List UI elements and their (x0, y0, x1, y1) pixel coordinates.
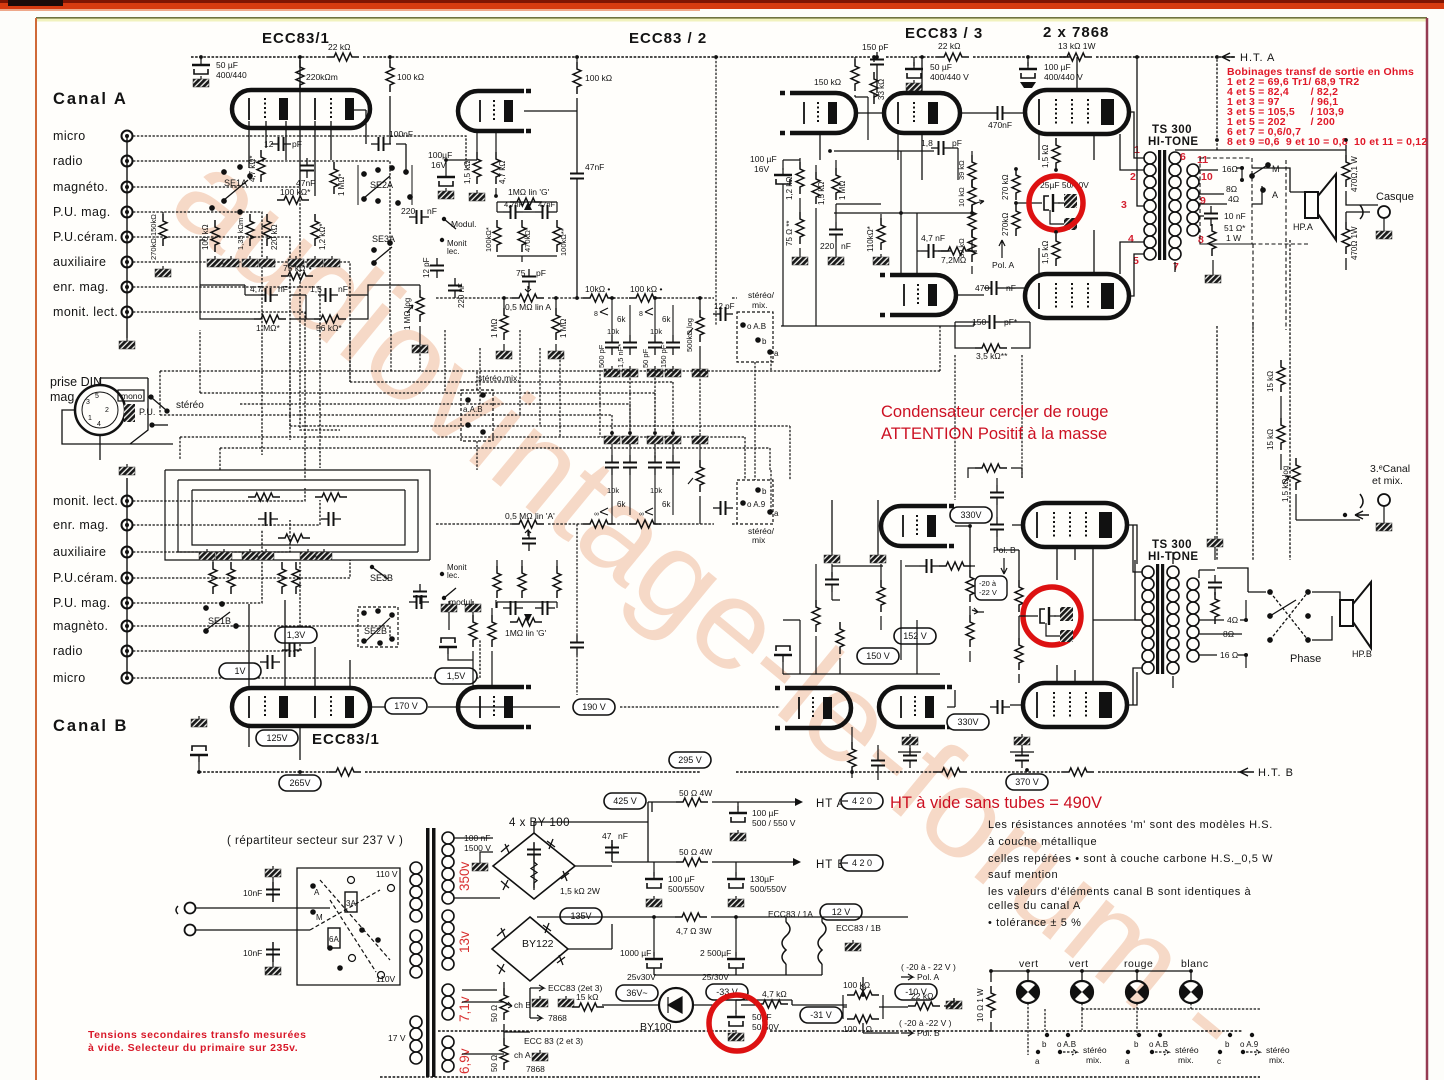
svg-text:100 µF: 100 µF (1044, 62, 1071, 72)
svg-text:350v: 350v (457, 861, 472, 891)
cap 47nF (300, 158, 314, 178)
svg-text:50 µF: 50 µF (930, 62, 952, 72)
wires phase to speaker (1217, 568, 1340, 640)
svg-text:1,35 kΩm: 1,35 kΩm (236, 218, 245, 250)
oval 330V top (950, 507, 992, 523)
resistor B fb2 (315, 493, 347, 501)
svg-text:12 V: 12 V (832, 907, 851, 917)
svg-text:1 MΩ*: 1 MΩ* (256, 323, 281, 333)
oval 36V (616, 985, 658, 1001)
svg-text:6k: 6k (617, 315, 626, 324)
svg-text:b: b (1134, 1040, 1139, 1049)
oval 370V (1006, 774, 1048, 790)
svg-text:1,5 kΩ: 1,5 kΩ (1041, 241, 1050, 264)
cap 220nF splitter (829, 222, 843, 242)
wires output right (1217, 57, 1378, 560)
tube V1 ECC83/1 (232, 90, 370, 128)
resistor B fb3 (278, 534, 310, 542)
svg-text:8: 8 (594, 311, 598, 318)
svg-text:Les résistances annotées 'm: Les résistances annotées 'm' sont des mo… (988, 819, 1273, 831)
svg-text:10k: 10k (607, 486, 619, 495)
svg-text:HI-TONE: HI-TONE (1148, 136, 1199, 148)
lamp bottom wires (1028, 1003, 1260, 1055)
svg-text:270 kΩ: 270 kΩ (1001, 174, 1010, 200)
cap 12pF vert (430, 258, 444, 278)
diode BY100 (659, 988, 693, 1022)
svg-text:50 Ω 4W: 50 Ω 4W (679, 788, 712, 798)
box bias pots (843, 995, 883, 1019)
feedback wires stage1 (200, 240, 420, 319)
svg-text:100 kΩ: 100 kΩ (397, 72, 424, 82)
wire risers to B splitter (700, 326, 1022, 500)
ground jacks A (119, 338, 135, 349)
svg-text:Condensateur cercler de rouge: Condensateur cercler de rouge (881, 403, 1108, 421)
svg-text:-20 à: -20 à (979, 579, 997, 588)
svg-text:stéréo: stéréo (1175, 1045, 1199, 1055)
svg-text:36V~: 36V~ (626, 988, 647, 998)
svg-text:1 MΩ log: 1 MΩ log (403, 298, 412, 330)
speaker HP.B (1340, 582, 1371, 648)
svg-text:BY122: BY122 (522, 938, 554, 950)
electrolytic B rail (191, 716, 207, 727)
cap 47nF G (535, 205, 555, 219)
svg-text:330V: 330V (957, 717, 978, 727)
svg-text:ECC 83 (2 et 3): ECC 83 (2 et 3) (524, 1036, 583, 1046)
ecap 2500uF (727, 952, 745, 968)
svg-text:400/440: 400/440 (216, 70, 247, 80)
black paragraph notes (988, 819, 1273, 929)
oval 1,3V (275, 627, 317, 643)
resistor 1,35kOm (246, 214, 254, 246)
svg-text:a: a (774, 509, 779, 518)
secondary 6,9v (442, 1036, 454, 1072)
tube V3 half (right round) (780, 93, 856, 133)
svg-text:enr. mag.: enr. mag. (53, 280, 109, 294)
svg-text:4 x BY 100: 4 x BY 100 (509, 817, 570, 829)
svg-text:110 V: 110 V (376, 869, 398, 879)
svg-text:SE2B: SE2B (364, 626, 387, 636)
svg-text:370 V: 370 V (1015, 777, 1039, 787)
svg-text:ch B: ch B (514, 1000, 531, 1010)
grounds row stage1 (207, 256, 223, 267)
svg-text:ECC83 / 1B: ECC83 / 1B (836, 923, 881, 933)
lamp L1 (1017, 981, 1039, 1003)
cap 1,5nF (318, 288, 338, 302)
svg-text:10k: 10k (650, 486, 662, 495)
svg-text:1000 µF: 1000 µF (620, 948, 651, 958)
svg-text:125V: 125V (266, 733, 287, 743)
svg-text:10nF: 10nF (243, 888, 262, 898)
svg-text:500 / 550 V: 500 / 550 V (752, 818, 796, 828)
svg-text:130µF: 130µF (750, 874, 774, 884)
svg-text:1 MΩ*: 1 MΩ* (337, 174, 346, 196)
switch SE3A (372, 241, 392, 265)
svg-text:Pol. A: Pol. A (917, 972, 940, 982)
svg-text:Tensions secondaires transfo: Tensions secondaires transfo mesurées (88, 1029, 306, 1041)
svg-text:o A.B: o A.B (1057, 1040, 1076, 1049)
svg-text:-22 V: -22 V (979, 588, 997, 597)
svg-text:1,5V: 1,5V (447, 671, 466, 681)
stereo switch at DIN (149, 395, 169, 427)
cap 47nF mirror B (570, 635, 584, 655)
oval 152V (894, 628, 936, 644)
ecap 100uF c (727, 872, 745, 888)
svg-text:4,7 nF: 4,7 nF (921, 233, 945, 243)
svg-text:6k: 6k (662, 500, 671, 509)
oval -31V (800, 1007, 842, 1023)
red annotation bobinages (1227, 66, 1427, 148)
svg-text:10 kΩ: 10 kΩ (957, 187, 966, 207)
svg-text:220 nF: 220 nF (457, 283, 466, 308)
primary windings (410, 862, 422, 1064)
svg-text:mix.: mix. (1178, 1055, 1194, 1065)
svg-text:50 µF: 50 µF (216, 60, 238, 70)
svg-text:25v30V: 25v30V (627, 972, 656, 982)
cap 12pF bridge (713, 307, 733, 321)
svg-text:3A: 3A (346, 899, 356, 908)
resistor 1M splitter (832, 168, 840, 200)
svg-text:10k: 10k (650, 327, 662, 336)
svg-text:P.U.céram.: P.U.céram. (53, 230, 118, 244)
svg-text:500/550V: 500/550V (750, 884, 787, 894)
svg-text:ECC83/1: ECC83/1 (262, 30, 330, 47)
red circle cap A (1029, 176, 1083, 230)
svg-text:monit. lect.: monit. lect. (53, 494, 118, 508)
svg-text:16Ω: 16Ω (1222, 164, 1238, 174)
wire trunk h7 (180, 437, 745, 480)
cap 150pF (870, 52, 884, 72)
cap 470nF coupling top (990, 106, 1010, 120)
svg-text:470nF: 470nF (988, 120, 1012, 130)
svg-text:33 kΩ: 33 kΩ (877, 79, 886, 100)
resistor 10k B (583, 520, 615, 528)
tone stack A caps (594, 298, 681, 377)
resistor 22k (937, 53, 969, 61)
svg-text:22 kΩ: 22 kΩ (938, 41, 960, 51)
resistor 270k,150k (159, 214, 167, 246)
oval 295V (669, 752, 711, 768)
svg-text:lec.: lec. (447, 247, 459, 256)
svg-text:P.U. mag.: P.U. mag. (53, 596, 111, 610)
resistor 100k (629, 294, 661, 302)
resistor chain 10k a (968, 180, 976, 212)
svg-text:39 kΩ: 39 kΩ (957, 238, 966, 258)
svg-text:mix.: mix. (752, 300, 768, 310)
input labels canal A (53, 129, 118, 319)
svg-text:10k: 10k (607, 327, 619, 336)
link verticals mix boxes (477, 356, 771, 512)
svg-text:12 pF: 12 pF (422, 257, 431, 278)
oval 425V (604, 793, 646, 809)
svg-text:425 V: 425 V (613, 796, 637, 806)
svg-text:4 2 0: 4 2 0 (852, 858, 872, 868)
mono box (118, 390, 144, 401)
wire trunk h8 (220, 448, 770, 470)
svg-text:pF: pF (292, 139, 302, 149)
resistor 56k (314, 315, 346, 323)
tertiary winding (1187, 164, 1199, 236)
svg-text:3: 3 (86, 399, 90, 406)
svg-text:mix: mix (752, 535, 766, 545)
resistor 1,5k B (469, 615, 477, 647)
svg-text:∞: ∞ (639, 511, 644, 518)
svg-text:22 kΩ: 22 kΩ (328, 42, 350, 52)
svg-text:220kΩm: 220kΩm (306, 72, 338, 82)
svg-text:15 kΩ: 15 kΩ (1266, 429, 1275, 450)
svg-text:b: b (1225, 1040, 1230, 1049)
switch box A.9 (737, 480, 773, 524)
switch SE1A (210, 165, 252, 214)
cap B fb2 (321, 512, 341, 526)
switch SE2B (358, 607, 398, 647)
svg-text:3,5 kΩ**: 3,5 kΩ** (976, 351, 1008, 361)
cap 4,7nF (258, 288, 278, 302)
svg-text:Pol. B: Pol. B (917, 1028, 940, 1038)
svg-text:H.T. A: H.T. A (1240, 52, 1275, 64)
resistor 4,7ohm 3W (675, 913, 707, 921)
svg-text:( -20 à -22 V ): ( -20 à -22 V ) (899, 1018, 952, 1028)
resistor 1,2k (311, 214, 319, 246)
resistor 100k (277, 196, 309, 204)
resistor 1M (330, 162, 338, 194)
svg-text:magnèto.: magnèto. (53, 619, 108, 633)
gnd bias (946, 998, 962, 1009)
resistor 3,5k fb (975, 344, 1007, 352)
secondary winding (1169, 152, 1181, 260)
switch SE3B (370, 565, 374, 569)
svg-text:radio: radio (53, 644, 83, 658)
volume pot 1M log (416, 290, 424, 322)
resistor g B1 (1015, 580, 1023, 612)
cap 12pF B (413, 584, 427, 604)
oval -33V (706, 984, 748, 1000)
lamp L2 (1071, 981, 1093, 1003)
svg-text:M: M (316, 913, 323, 922)
svg-text:P.U.: P.U. (139, 407, 155, 417)
svg-text:6A: 6A (329, 935, 339, 944)
wire trunk h2 (350, 330, 673, 433)
svg-text:25/30V: 25/30V (702, 972, 729, 982)
svg-text:7868: 7868 (526, 1064, 545, 1074)
svg-text:100kΩ*: 100kΩ* (484, 227, 493, 252)
svg-text:P.U.céram.: P.U.céram. (53, 571, 118, 585)
ecap 100uF b (645, 872, 663, 888)
resistor B fb1 (248, 493, 280, 501)
grounds B splitter (824, 552, 840, 563)
resistor 15k a (1277, 360, 1285, 392)
svg-text:ECC83 / 3: ECC83 / 3 (905, 25, 983, 42)
svg-text:radio: radio (53, 154, 83, 168)
wire trunk h3 (200, 330, 655, 433)
svg-text:monit. lect.: monit. lect. (53, 305, 118, 319)
svg-text:4,7: 4,7 (250, 284, 262, 294)
grounds row B (199, 549, 215, 560)
Pol.A arrow (999, 240, 1005, 258)
wire trunk h6 (290, 340, 790, 480)
cap 100nF anode (371, 137, 391, 151)
modul B (442, 596, 446, 600)
svg-text:9: 9 (1200, 195, 1206, 207)
svg-text:4Ω: 4Ω (1227, 615, 1238, 625)
svg-text:1,8: 1,8 (921, 138, 933, 148)
svg-text:0,5 MΩ lin A: 0,5 MΩ lin A (505, 302, 551, 312)
wires B splitter (832, 500, 1141, 707)
oval 125V (256, 730, 298, 746)
caps fb B (990, 485, 1004, 505)
resistor 10k 1W (1060, 53, 1092, 61)
svg-text:P.U. mag.: P.U. mag. (53, 205, 111, 219)
resistor 33k (870, 72, 878, 104)
resistor 470ohm 1W top (1342, 155, 1350, 187)
arrows ECC83 7868 chB (530, 985, 544, 991)
switch SE2A (358, 165, 412, 205)
tube V4B splitter (881, 506, 957, 546)
svg-text:220: 220 (820, 241, 834, 251)
svg-text:2: 2 (1130, 171, 1136, 183)
wires tube V1 pins (249, 57, 406, 196)
svg-text:500 pF: 500 pF (597, 344, 606, 368)
svg-text:470Ω,1 W: 470Ω,1 W (1350, 156, 1359, 192)
cap B fb1 (258, 512, 278, 526)
svg-text:50 Ω: 50 Ω (490, 1055, 499, 1072)
svg-text:500/550V: 500/550V (668, 884, 705, 894)
svg-text:100 µF: 100 µF (668, 874, 695, 884)
resistor 22k (327, 53, 359, 61)
splitter B mirror cluster (825, 572, 839, 592)
svg-text:47nF: 47nF (538, 200, 556, 209)
svg-text:5: 5 (95, 393, 99, 400)
svg-text:HT à vide sans tubes = 490V: HT à vide sans tubes = 490V (890, 794, 1102, 812)
resistor chain 10k b (968, 205, 976, 237)
tube V2B half (458, 687, 534, 727)
svg-text:stéréo: stéréo (1083, 1045, 1107, 1055)
resistor 1,5k g1 (1052, 138, 1060, 170)
electrolytic 100uF 400/440V (1019, 62, 1037, 78)
svg-text:1: 1 (88, 415, 92, 422)
tube V7B half (775, 688, 851, 728)
pot 50ohm chA (500, 1038, 508, 1070)
resistor 1,2k (796, 162, 804, 194)
tube V2 ECC83/2a (458, 91, 534, 131)
resistor 1,5k g2 (1052, 234, 1060, 266)
svg-text:b: b (762, 337, 767, 346)
wires mains (196, 882, 330, 962)
switch box A.B top (737, 312, 773, 362)
svg-text:150 pF: 150 pF (862, 42, 888, 52)
resistor 150k anode T3 (851, 59, 859, 91)
svg-text:400/440 V: 400/440 V (930, 72, 969, 82)
switch cluster 2 (1125, 1033, 1199, 1066)
svg-text:stéréo: stéréo (1266, 1045, 1290, 1055)
mid bus A (436, 297, 737, 299)
svg-text:Canal A: Canal A (53, 90, 128, 108)
P.U. hatched block (124, 404, 135, 422)
red pin numbers TR1 (1121, 144, 1213, 273)
svg-text:SE2A: SE2A (370, 180, 393, 190)
resistor 1M lower (254, 315, 286, 323)
svg-text:170 V: 170 V (394, 701, 418, 711)
resistor 100k anode (576, 57, 578, 62)
svg-text:100 kΩ*: 100 kΩ* (280, 187, 311, 197)
wires splitter A (781, 148, 977, 326)
cap 25uF B in circle (1040, 607, 1056, 625)
bias box -20 a -22V (975, 576, 1007, 600)
svg-text:enr. mag.: enr. mag. (53, 518, 109, 532)
cap 150pF fb (982, 315, 1002, 329)
resistor 220k (263, 214, 271, 246)
svg-text:1,5 kΩ log: 1,5 kΩ log (1281, 466, 1290, 502)
tertiary TR2 (1187, 578, 1199, 662)
svg-text:6k: 6k (617, 500, 626, 509)
svg-text:1,5 kΩ: 1,5 kΩ (817, 182, 826, 205)
svg-text:lec.: lec. (447, 571, 459, 580)
secondary 350v (442, 832, 454, 904)
svg-text:o A.B: o A.B (1149, 1040, 1168, 1049)
resistor 4,7k (492, 152, 500, 184)
svg-text:1MΩ lin 'G': 1MΩ lin 'G' (505, 628, 547, 638)
pot 0,5M lin A (512, 294, 544, 302)
resistor rail B (329, 768, 361, 776)
svg-text:220 kΩ: 220 kΩ (270, 224, 279, 250)
mains plug (185, 903, 196, 914)
pot 100k b (847, 1015, 879, 1023)
svg-text:4 2 0: 4 2 0 (852, 796, 872, 806)
svg-text:150 kΩ: 150 kΩ (814, 77, 841, 87)
svg-text:SE1A: SE1A (224, 178, 247, 188)
resistor 10ohm 1W (987, 986, 995, 1018)
svg-text:les valeurs d'éléments cana: les valeurs d'éléments canal B sont iden… (988, 886, 1252, 898)
secondary 7,1v (442, 984, 454, 1020)
svg-text:modul.: modul. (449, 597, 475, 607)
risers from stage1 (391, 330, 655, 460)
resistor 100k (389, 57, 391, 60)
jack bus wire A (126, 136, 128, 338)
tube V1B ECC83/1 (232, 688, 370, 726)
pot 0,5M lin A B (512, 520, 544, 528)
switch cluster 3 (1217, 1033, 1290, 1066)
svg-text:100µF: 100µF (428, 150, 452, 160)
cap 12pF bridge B (713, 501, 733, 515)
svg-text:8Ω: 8Ω (1226, 184, 1237, 194)
resistor 270k b (1012, 204, 1020, 236)
wire trunk h4 (240, 404, 630, 433)
svg-text:150 pF*: 150 pF* (659, 342, 668, 368)
svg-text:• tolérance ± 5 %: • tolérance ± 5 % (988, 917, 1081, 929)
svg-text:micro: micro (53, 671, 86, 685)
selector (297, 868, 400, 985)
svg-text:HP.A: HP.A (1293, 222, 1313, 232)
svg-text:Modul.: Modul. (451, 219, 477, 229)
Canal B input labels (53, 494, 118, 685)
resistor 470k G (518, 220, 526, 252)
svg-text:celles du canal A: celles du canal A (988, 900, 1081, 912)
svg-text:47: 47 (602, 831, 612, 841)
svg-text:1 MΩ: 1 MΩ (838, 181, 847, 200)
oval 1,5V (435, 668, 477, 684)
secondary 13v (442, 910, 454, 970)
cap 470nF bottom (984, 281, 1004, 295)
svg-text:15 kΩ: 15 kΩ (576, 992, 598, 1002)
svg-text:( répartiteur secteur sur 23: ( répartiteur secteur sur 237 V ) (227, 835, 403, 847)
switch cluster 1 (1035, 1033, 1107, 1066)
svg-text:150 V: 150 V (866, 651, 890, 661)
svg-text:51 Ω*: 51 Ω* (1224, 223, 1246, 233)
oval 265V (279, 775, 321, 791)
wires 350v to bridge (454, 802, 648, 898)
red circle cap psu (709, 995, 765, 1051)
resistor g B2 (1015, 638, 1023, 670)
resistor chain 39k (968, 155, 976, 187)
